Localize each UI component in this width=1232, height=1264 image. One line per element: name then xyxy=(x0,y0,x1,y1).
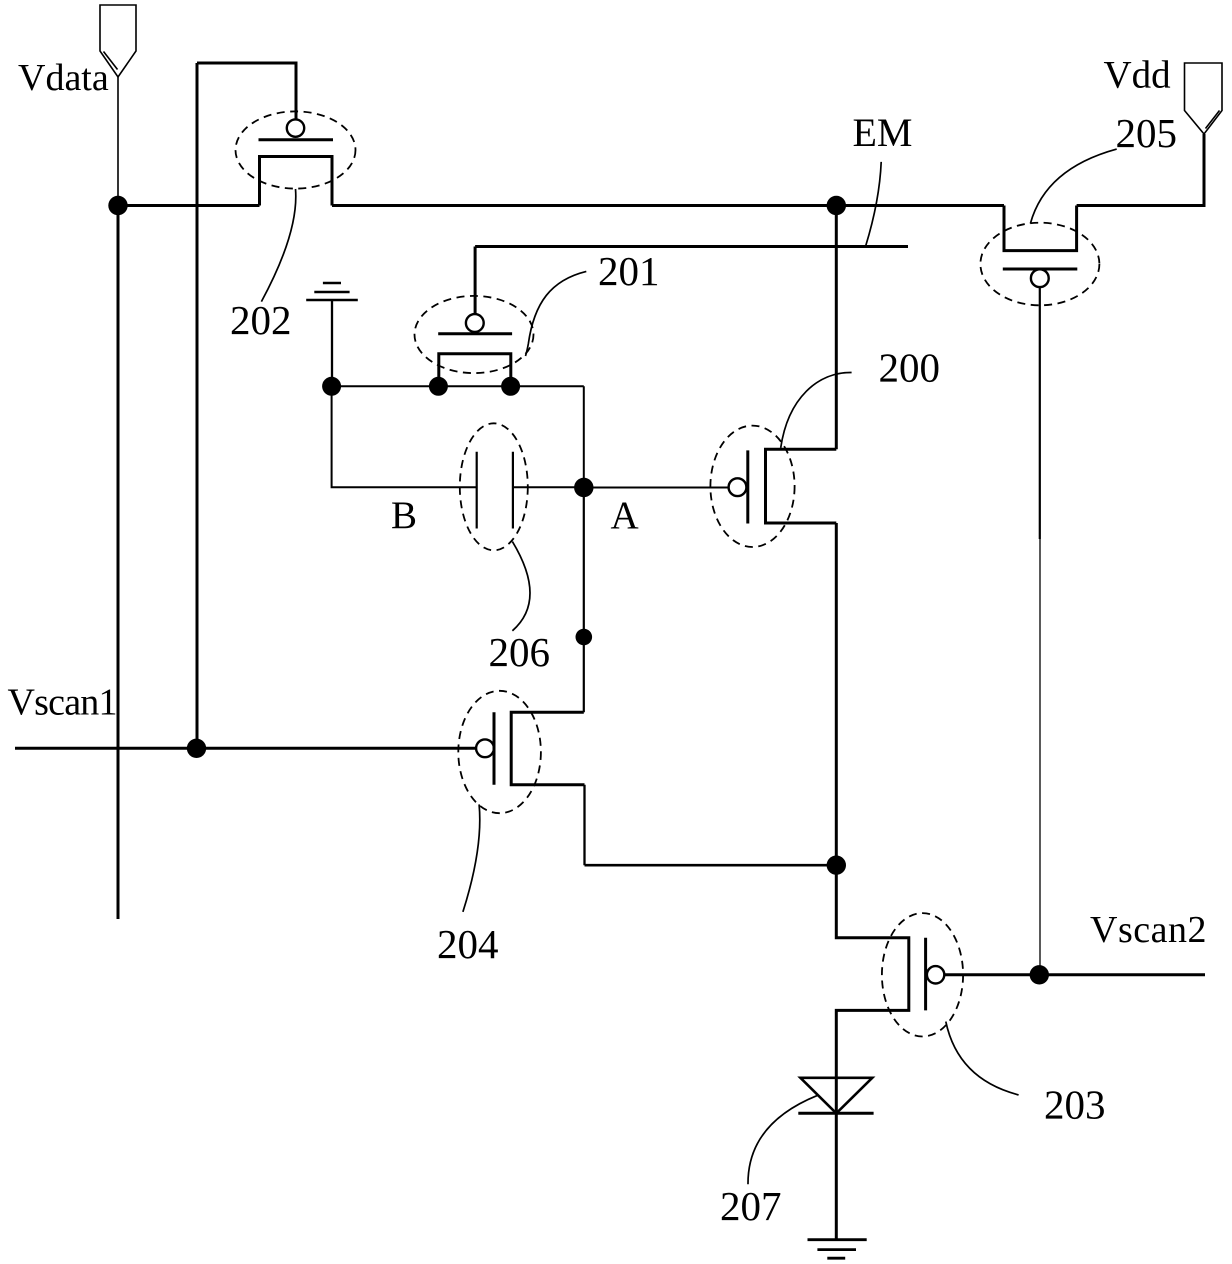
svg-text:B: B xyxy=(391,494,417,537)
node dot 201 right xyxy=(501,377,520,396)
node dot A xyxy=(574,478,593,497)
leader 206 xyxy=(512,542,530,631)
wire T205 right to Vdd xyxy=(1077,134,1204,206)
node dot drain xyxy=(827,856,846,875)
svg-text:EM: EM xyxy=(853,110,913,155)
svg-text:Vscan1: Vscan1 xyxy=(8,682,117,724)
ellipse around 202 xyxy=(236,111,356,188)
node junction dot EM xyxy=(827,196,846,215)
wire Vdata stem (thin) xyxy=(117,77,119,206)
ellipse around 206 xyxy=(460,423,528,550)
wire Vscan2 xyxy=(1039,973,1205,976)
wire Vdata vertical below junction xyxy=(117,206,120,920)
wire EM line xyxy=(475,245,908,248)
ellipse around 205 xyxy=(980,223,1099,306)
transistor 204 xyxy=(476,712,584,784)
svg-text:A: A xyxy=(611,494,639,537)
node junction dot Vdata xyxy=(108,196,127,215)
ground symbol node B xyxy=(306,283,358,300)
svg-text:206: 206 xyxy=(489,629,551,675)
wire gate loop of T202 to Vscan1 xyxy=(197,63,296,119)
node dot mid xyxy=(576,629,593,646)
svg-text:205: 205 xyxy=(1116,110,1178,156)
wire main rail left of T202 xyxy=(118,204,260,207)
leader EM xyxy=(866,162,882,246)
wire Vscan1 xyxy=(15,747,476,750)
leader 203 xyxy=(946,1022,1019,1095)
wire T200 drain down xyxy=(835,523,838,865)
wire EM dot down to T200 xyxy=(835,206,838,450)
svg-text:207: 207 xyxy=(720,1183,782,1229)
transistor 200 xyxy=(729,449,837,523)
wire B down to capacitor xyxy=(332,386,477,487)
leader 204 xyxy=(463,804,480,912)
diode 207 xyxy=(798,1078,873,1240)
leader 201 xyxy=(526,271,587,356)
ground symbol bottom xyxy=(808,1240,867,1259)
leader 202 xyxy=(261,189,295,302)
svg-text:Vscan2: Vscan2 xyxy=(1090,909,1207,951)
ellipse around 201 xyxy=(415,296,534,373)
svg-text:Vdd: Vdd xyxy=(1104,54,1172,97)
transistor 205 xyxy=(1003,206,1078,288)
wire A down to T204 xyxy=(583,488,585,713)
node dot 201 left xyxy=(429,377,448,396)
wire right of 201 down to A xyxy=(583,386,585,487)
transistor 203 xyxy=(836,865,1039,1078)
transistor 202 xyxy=(259,119,334,205)
ellipse around 203 xyxy=(882,913,963,1036)
svg-text:Vdata: Vdata xyxy=(18,57,109,99)
transistor 201 xyxy=(438,247,512,387)
leader 200 xyxy=(781,372,852,447)
svg-text:203: 203 xyxy=(1044,1082,1106,1128)
wire A to T200 gate xyxy=(584,487,729,489)
leader 207 xyxy=(748,1095,817,1184)
wire T205 gate down to Vscan2 xyxy=(1039,287,1041,539)
wire node B rail xyxy=(332,385,584,387)
leader 205 xyxy=(1030,149,1116,223)
ellipse around 200 xyxy=(710,426,794,547)
wire main rail T202 to T205 xyxy=(332,204,1004,207)
wire T204 drain to node xyxy=(583,785,585,866)
node dot Vscan2 xyxy=(1030,965,1049,984)
node dot Vscan1 xyxy=(187,739,206,758)
ellipse around 204 xyxy=(458,691,541,813)
svg-text:200: 200 xyxy=(879,345,941,391)
svg-text:202: 202 xyxy=(230,297,292,343)
svg-text:204: 204 xyxy=(437,921,499,967)
Vdd terminal pin xyxy=(1185,63,1223,134)
node dot B-gnd xyxy=(322,377,341,396)
Vdata terminal pin xyxy=(100,5,136,77)
capacitor 206 xyxy=(477,452,584,529)
svg-text:201: 201 xyxy=(598,248,660,294)
